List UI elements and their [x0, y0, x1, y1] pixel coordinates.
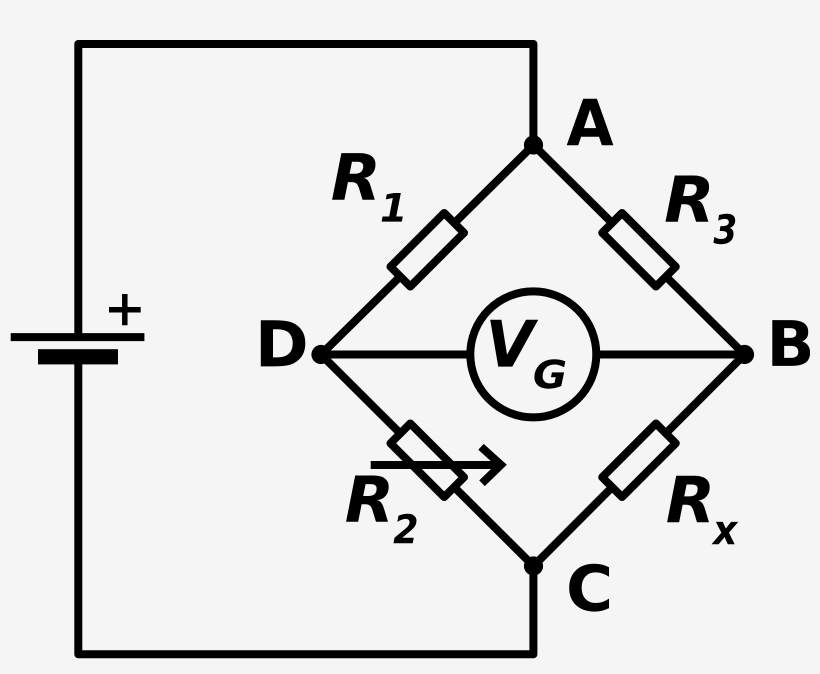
wire: arm C to B: [534, 355, 745, 567]
battery positive plate: [11, 333, 145, 341]
battery negative plate: [38, 349, 118, 364]
wire: battery + terminal up, across top, down to node A: [78, 44, 533, 337]
label R1 subscript 1: [382, 193, 403, 222]
galvanometer label G: [534, 359, 565, 388]
node B label: [772, 320, 810, 366]
wire: arm A to D: [321, 145, 534, 355]
battery + polarity mark: [109, 294, 141, 325]
label R3 letter R: [665, 176, 709, 222]
label R2 letter R: [346, 476, 389, 522]
node C junction dot: [524, 556, 543, 575]
label Rx subscript x: [711, 522, 738, 544]
wire: arm A to B: [534, 145, 745, 355]
node B junction dot: [735, 345, 754, 364]
label R3 subscript 3: [713, 214, 735, 244]
resistor R1 body: [390, 213, 464, 287]
galvanometer circle: [470, 291, 596, 417]
label R2 subscript 2: [394, 514, 417, 543]
label R1 letter R: [332, 153, 375, 200]
node D junction dot: [311, 345, 330, 364]
resistor Rx body: [602, 423, 676, 497]
resistor R2 body (variable): [390, 423, 464, 497]
wire: battery - terminal down, across bottom, up to node C: [78, 356, 533, 654]
variable resistor arrow through R2: [371, 461, 500, 469]
galvanometer label V: [490, 320, 538, 367]
node C label: [569, 564, 609, 612]
resistor R3 body: [602, 213, 676, 287]
node A label: [567, 99, 614, 146]
wire: galvanometer bridge D to B: [321, 351, 745, 359]
label Rx letter R: [667, 476, 710, 523]
node D label: [261, 320, 305, 366]
node A junction dot: [524, 135, 543, 154]
wire: arm D to C: [321, 355, 534, 567]
